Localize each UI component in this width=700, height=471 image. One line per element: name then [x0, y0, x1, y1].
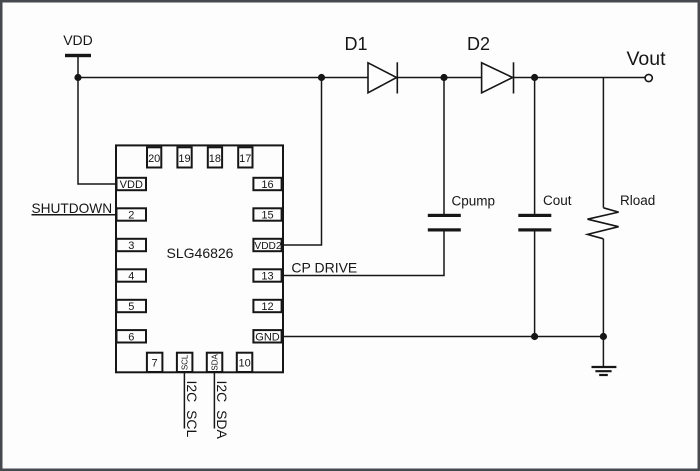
svg-text:SLG46826: SLG46826 [167, 245, 234, 261]
svg-text:12: 12 [261, 301, 273, 313]
svg-text:SCL: SCL [181, 354, 190, 370]
svg-text:7: 7 [152, 358, 158, 370]
svg-text:VDD2: VDD2 [254, 241, 282, 252]
svg-text:2: 2 [128, 210, 134, 222]
svg-text:SHUTDOWN: SHUTDOWN [32, 201, 113, 216]
svg-text:Rload: Rload [620, 193, 655, 208]
svg-text:CP DRIVE: CP DRIVE [291, 260, 357, 276]
svg-text:20: 20 [148, 153, 160, 165]
svg-text:17: 17 [239, 153, 251, 165]
svg-text:Cout: Cout [543, 193, 572, 208]
svg-text:D2: D2 [467, 34, 490, 54]
svg-text:I2C_SDA: I2C_SDA [214, 381, 230, 440]
svg-text:3: 3 [128, 240, 134, 252]
svg-text:VDD: VDD [120, 179, 143, 191]
svg-text:18: 18 [209, 153, 221, 165]
svg-text:Vout: Vout [627, 48, 667, 70]
svg-text:D1: D1 [345, 34, 368, 54]
svg-text:VDD: VDD [63, 32, 93, 48]
svg-text:I2C_SCL: I2C_SCL [184, 381, 200, 438]
svg-text:Cpump: Cpump [452, 194, 496, 209]
svg-text:5: 5 [128, 301, 134, 313]
svg-text:SDA: SDA [211, 354, 220, 371]
svg-text:6: 6 [128, 331, 134, 343]
svg-text:10: 10 [238, 358, 250, 370]
svg-text:15: 15 [261, 210, 273, 222]
svg-text:16: 16 [261, 179, 273, 191]
svg-text:4: 4 [128, 271, 134, 283]
svg-text:GND: GND [255, 331, 280, 343]
svg-text:19: 19 [178, 153, 190, 165]
svg-text:13: 13 [261, 271, 273, 283]
